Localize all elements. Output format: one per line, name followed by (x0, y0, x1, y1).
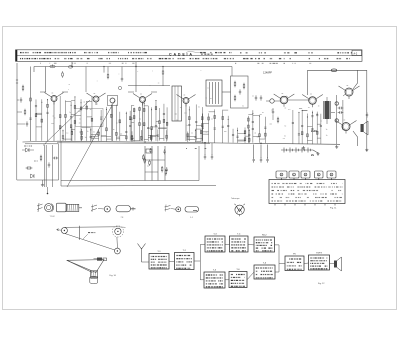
svg-text:xx: xx (61, 126, 63, 128)
wire h2link0 (195, 128, 201, 130)
svg-text:x.x: x.x (288, 109, 290, 111)
capacitor C50 (253, 157, 255, 159)
dial cord top (64, 226, 118, 229)
wire drop p2 (211, 143, 213, 155)
terminal block legend text (272, 183, 273, 184)
antenna input marks (16, 79, 18, 81)
IF transformer IFT1 (172, 86, 182, 121)
wire f2col2 (140, 130, 142, 141)
resistor R30 (26, 167, 28, 169)
resistor fR91 (163, 119, 165, 122)
wire blink6 (87, 101, 92, 103)
wire blink5 (87, 116, 92, 118)
wire kcol3 (214, 109, 216, 143)
resistor fR70 (155, 107, 157, 110)
capacitor RT7 (166, 167, 168, 169)
svg-text:xx: xx (79, 118, 81, 120)
capacitor mC50 (311, 115, 313, 117)
svg-text:1x: 1x (242, 106, 244, 108)
wire top rail (34, 66, 232, 68)
svg-text:xx: xx (184, 95, 186, 97)
wire h2link1 (195, 140, 201, 142)
svg-text:xx: xx (254, 132, 256, 134)
svg-text:A-2: A-2 (354, 52, 358, 55)
wire drop a (253, 145, 255, 159)
block K8-2 (254, 237, 275, 252)
capacitor k2C40 (248, 133, 250, 135)
battery B1 (283, 148, 285, 153)
wire dcol6 (125, 112, 127, 141)
parts table frame (16, 50, 363, 62)
pulley A (61, 228, 67, 234)
wire f2link2 (158, 127, 167, 129)
pulley C (115, 248, 121, 254)
wire acol2 (41, 99, 43, 141)
wire hcol3 (201, 107, 203, 141)
svg-text:1x: 1x (85, 137, 87, 139)
wire lcol1 (247, 116, 249, 143)
wire mlink0 (317, 123, 321, 125)
wire alink2 (36, 113, 42, 115)
svg-text:1x: 1x (139, 118, 141, 120)
resistor hR10 (189, 117, 191, 120)
wire b2col5 (98, 129, 100, 140)
resistor b2R20 (71, 132, 73, 135)
label lb2 (34, 160, 36, 163)
wire dcol3 (110, 104, 112, 140)
resistor RT1 (149, 159, 151, 161)
svg-text:xx: xx (310, 94, 312, 96)
table underline marks (235, 62, 236, 65)
wire drop x163 (162, 67, 164, 70)
terminal block tabs (276, 171, 287, 178)
capacitor dC60 (125, 130, 127, 132)
resistor bR31 (70, 125, 72, 128)
resistor aR20 (41, 119, 43, 122)
wire bcol6 (86, 101, 88, 140)
shaft pictorial P2 (57, 203, 67, 212)
wire rise x199 (198, 146, 200, 181)
label lb1 (24, 145, 26, 148)
capacitor aC31 (46, 111, 48, 113)
wire bcol2 (64, 100, 66, 140)
resistor bR20 (65, 114, 67, 117)
lug wheel P7 (235, 205, 244, 214)
wire f2link0 (132, 139, 141, 141)
svg-text:xx: xx (52, 116, 54, 118)
wire dcol7 (129, 111, 131, 141)
wire kcol5 (227, 116, 229, 143)
resistor kR30 (214, 115, 216, 118)
wire out v1 (336, 95, 338, 144)
resistor fR41 (143, 123, 145, 126)
wire left margin down (16, 140, 18, 180)
svg-text:K8-2: K8-2 (262, 235, 267, 237)
wire dlink5 (106, 136, 111, 138)
node J7 (260, 143, 261, 144)
transformer TR1 winding B (330, 101, 332, 119)
wire d2 (22, 149, 26, 151)
resistor f2R50 (166, 135, 168, 138)
wire left block bottom (17, 179, 59, 181)
svg-text:1248PF: 1248PF (263, 70, 273, 74)
wire f2col3 (150, 129, 152, 142)
svg-text:x.x: x.x (66, 133, 68, 135)
resistor bR50 (80, 107, 82, 110)
resistor RT4 (165, 169, 167, 171)
resistor fR80 (159, 121, 161, 124)
svg-text:8: 8 (293, 175, 294, 177)
resistor RE1 (107, 73, 109, 75)
parts table row1 text (20, 52, 22, 53)
resistor fR60 (151, 127, 153, 130)
wire hcol1 (188, 106, 190, 141)
svg-text:x.x: x.x (271, 109, 273, 111)
resistor kR40 (222, 117, 224, 120)
svg-text:xxx: xxx (184, 113, 187, 115)
wire drop x231 (231, 67, 233, 77)
svg-text:1x: 1x (198, 106, 200, 108)
svg-text:8: 8 (331, 175, 332, 177)
pulley A arrow (57, 229, 59, 231)
wire left drop2 (42, 180, 44, 183)
resistor k2R31 (244, 138, 246, 141)
wire base rail T4 (128, 91, 134, 93)
svg-text:xx: xx (83, 102, 85, 104)
capacitor mC20 (298, 133, 300, 135)
electrolytic CE2 (335, 102, 338, 105)
wire dlink1 (101, 135, 106, 137)
capacitor mC70 (320, 124, 322, 126)
svg-text:xxx: xxx (147, 128, 150, 130)
svg-text:1x: 1x (284, 135, 286, 137)
capacitor h2C20 (194, 135, 196, 137)
switch S1 (313, 150, 318, 153)
svg-text:1x: 1x (205, 98, 207, 100)
svg-text:xxx: xxx (51, 123, 54, 125)
wire hlink1 (196, 138, 202, 140)
capsule pictorial P4 (116, 206, 131, 212)
block speaker (334, 261, 337, 268)
wire kcol4 (222, 110, 224, 143)
transistor T3 in can (108, 96, 118, 106)
resistor bR40 (74, 105, 76, 108)
ground G1 (336, 145, 338, 147)
wire top rail right (308, 69, 367, 71)
svg-text:Fig. 11: Fig. 11 (330, 208, 337, 210)
ground G4 (42, 183, 44, 185)
svg-text:1x: 1x (286, 96, 288, 98)
wire blink1 (71, 113, 75, 115)
transformer TR1 leads (326, 97, 328, 101)
svg-text:Fig. 10: Fig. 10 (110, 275, 117, 277)
wire left block top (25, 143, 59, 145)
svg-text:xx: xx (90, 109, 92, 111)
transistor T4 (140, 97, 146, 103)
wire left block v2 (45, 145, 47, 187)
capacitor kC50 (227, 124, 229, 126)
resistor mR61 (316, 131, 318, 134)
wire mlink6 (299, 107, 302, 109)
capacitor fC90 (163, 112, 165, 114)
svg-text:xx: xx (252, 95, 254, 97)
wire klink3 (223, 109, 228, 111)
resistor RN1 (277, 117, 279, 119)
svg-text:1x: 1x (326, 135, 328, 137)
wire stub 47 (47, 187, 49, 193)
resistor bR10 (59, 115, 61, 118)
svg-text:x.x: x.x (257, 137, 259, 139)
capacitor CH1 (338, 107, 340, 109)
resistor R1 (22, 85, 24, 87)
wire drop p1 (204, 143, 206, 155)
resistor bR70 (91, 118, 93, 121)
coil pictorial P1 (37, 204, 43, 206)
wire b2link0 (63, 138, 72, 140)
fuse F1 (331, 69, 337, 72)
wire lower rail 2 (61, 180, 199, 182)
wire right edge (366, 70, 368, 151)
svg-text:xx: xx (52, 93, 54, 95)
resistor b2R30 (81, 132, 83, 135)
capacitor C1b (26, 121, 28, 123)
wire h2col1 (187, 132, 189, 142)
capacitor dC11 (100, 124, 102, 126)
svg-text:Fig. 12: Fig. 12 (318, 283, 325, 285)
svg-text:xx: xx (116, 123, 118, 125)
wire bcol4 (74, 97, 76, 141)
resistor aR11 (35, 114, 37, 117)
wire T5 emitter (185, 104, 187, 141)
resistor b2R50 (98, 132, 100, 135)
ground G3 (317, 152, 319, 154)
transformer TR1 core (325, 101, 330, 119)
svg-text:xx: xx (94, 93, 96, 95)
node J6 (204, 142, 205, 143)
svg-text:8: 8 (305, 175, 306, 177)
resistor lR30 (259, 134, 261, 137)
resistor dR20 (106, 128, 108, 131)
wire left column (16, 63, 18, 140)
resistor RT8 (144, 157, 146, 159)
svg-text:1x: 1x (119, 134, 121, 136)
wire mcol6 (316, 112, 318, 144)
resistor fR100 (166, 122, 168, 125)
wire f2col1 (131, 131, 133, 141)
wire flink3 (159, 137, 163, 139)
block T-5 (204, 272, 225, 288)
resistor k2R30 (244, 131, 246, 134)
wire dlink6 (116, 136, 119, 138)
svg-text:xx: xx (207, 88, 209, 90)
label cord (88, 232, 90, 233)
wire blink3 (71, 100, 75, 102)
capacitor RT5 (164, 149, 166, 151)
transformer TR1 winding A (322, 101, 324, 119)
capacitor CJ1 (239, 89, 241, 91)
resistor hR30 (201, 117, 203, 120)
wire left block v4 (58, 144, 60, 180)
wire h2col2 (194, 129, 196, 142)
capacitor lC20 (252, 120, 254, 122)
wire blink4 (65, 101, 71, 103)
wire b2link2 (82, 126, 91, 128)
wire mlink1 (307, 140, 312, 142)
svg-text:1x: 1x (326, 129, 328, 131)
capacitor CH2 (338, 112, 340, 114)
wire drop x307 (307, 70, 309, 95)
coil pictorial P5 (165, 206, 171, 208)
dial triangle (67, 260, 104, 273)
wire f2link3 (158, 127, 167, 129)
transistor T7 (309, 97, 317, 105)
resistor dR61 (125, 136, 127, 139)
wire n links (272, 108, 274, 110)
wire T9 base link (343, 129, 345, 130)
resistor RJ2 (243, 83, 245, 85)
wire mlink2 (302, 110, 307, 112)
wire out v2 (342, 100, 344, 130)
node J2 (135, 66, 136, 67)
wire b2col3 (81, 129, 83, 141)
wire mlink3 (317, 137, 321, 139)
transistor T2 (93, 96, 99, 102)
resistor dR70 (129, 117, 131, 120)
resistor f2R11 (131, 137, 133, 140)
wire dcol4 (115, 105, 117, 141)
transistor T5 (183, 98, 189, 104)
svg-text:1x: 1x (264, 138, 266, 140)
svg-text:xx: xx (142, 123, 144, 125)
svg-text:xx: xx (211, 119, 213, 121)
capacitor kC31 (214, 127, 216, 129)
wire fcol5 (147, 106, 149, 141)
node J4 (162, 66, 163, 67)
resistor lR41 (265, 133, 267, 136)
wire T1 emitter (53, 102, 55, 141)
transistor T1 (51, 96, 57, 102)
resistor dR30 (110, 114, 112, 117)
svg-text:xx: xx (140, 94, 142, 96)
wire base rail T1 (40, 91, 46, 93)
parts table left bar (16, 50, 18, 62)
wire tone 1 (144, 146, 146, 181)
resistor mR31 (301, 132, 303, 135)
wire flink0 (156, 120, 159, 122)
resistor R31 (40, 155, 42, 157)
svg-text:xx: xx (113, 129, 115, 131)
wire fcol3 (139, 107, 141, 141)
wire fcol9 (163, 104, 165, 141)
capacitor fC71 (155, 125, 157, 127)
wire drop x61 (60, 141, 62, 186)
resistor dR40 (116, 132, 118, 135)
block T-4 (230, 236, 249, 252)
wire b2link1 (91, 137, 99, 139)
wire lcol3 (258, 116, 260, 143)
wire pointer diagonal 1 (43, 100, 90, 146)
wire fcol7 (155, 100, 157, 140)
capacitor mC30 (301, 125, 303, 127)
wire hcol2 (195, 104, 197, 140)
wire flink6 (144, 138, 148, 140)
wire bcol5 (80, 99, 82, 140)
capacitor Cleft (29, 117, 31, 119)
wire mlink4 (302, 110, 307, 112)
wire flink7 (148, 135, 151, 137)
capacitor hC20 (195, 121, 197, 123)
resistor bR11 (59, 126, 61, 129)
wire lcol2 (252, 110, 254, 142)
capacitor h2C11 (187, 137, 189, 139)
wire agc rail (128, 85, 170, 87)
dial cord right (116, 237, 119, 248)
svg-text:2x10: 2x10 (311, 129, 317, 133)
svg-text:xx: xx (262, 112, 264, 114)
resistor f2R20 (140, 136, 142, 139)
resistor h2R10 (187, 134, 189, 137)
wire alink0 (36, 112, 42, 114)
capacitor dC10 (100, 117, 102, 119)
wire k2link2 (238, 132, 245, 134)
svg-text:T8/T9: T8/T9 (316, 253, 322, 255)
capacitor k2C10 (232, 133, 234, 135)
wire klink1 (203, 131, 209, 133)
wire k2link0 (238, 140, 245, 142)
label under rail (185, 148, 188, 149)
capacitor kC41 (222, 125, 224, 127)
wire h2link2 (188, 138, 196, 140)
capacitor C52 (267, 157, 269, 159)
wire f2link4 (151, 135, 158, 137)
resistor Rleft (30, 98, 32, 101)
resistor lR11 (248, 125, 250, 128)
svg-text:T 102: T 102 (50, 216, 56, 218)
svg-text:xx: xx (79, 111, 81, 113)
capacitor CE1 (121, 76, 123, 78)
wire lcol4 (264, 117, 266, 143)
wire rail to left block (23, 140, 58, 143)
capacitor aC10 (35, 105, 37, 107)
capacitor bC30 (70, 116, 72, 118)
wire b2link4 (91, 134, 99, 136)
wire flink1 (144, 105, 148, 107)
svg-text:xx: xx (308, 107, 310, 109)
wire output top (353, 70, 358, 89)
svg-text:xx: xx (96, 103, 98, 105)
wire k2col2 (237, 128, 239, 143)
svg-text:1x: 1x (54, 118, 56, 120)
wire mcol4 (306, 114, 308, 145)
resistor bR60 (86, 106, 88, 109)
wire tone joins (145, 159, 165, 161)
svg-text:xx: xx (68, 84, 70, 86)
wire drop x86 (85, 67, 87, 93)
resistor f2R30 (150, 135, 152, 138)
capacitor f2C40 (157, 134, 159, 136)
svg-text:1x: 1x (320, 120, 322, 122)
capacitor fC50 (147, 127, 149, 129)
wire drop x46 (45, 67, 47, 93)
wire b2col4 (90, 128, 92, 141)
resistor fR31 (139, 123, 141, 126)
drum cylinder (90, 278, 98, 284)
wire llink0 (259, 138, 265, 140)
wire pointer diagonal 2 (67, 100, 115, 187)
wire left links (17, 99, 19, 101)
transistor T9 (342, 123, 350, 131)
svg-text:x.x: x.x (176, 120, 178, 122)
